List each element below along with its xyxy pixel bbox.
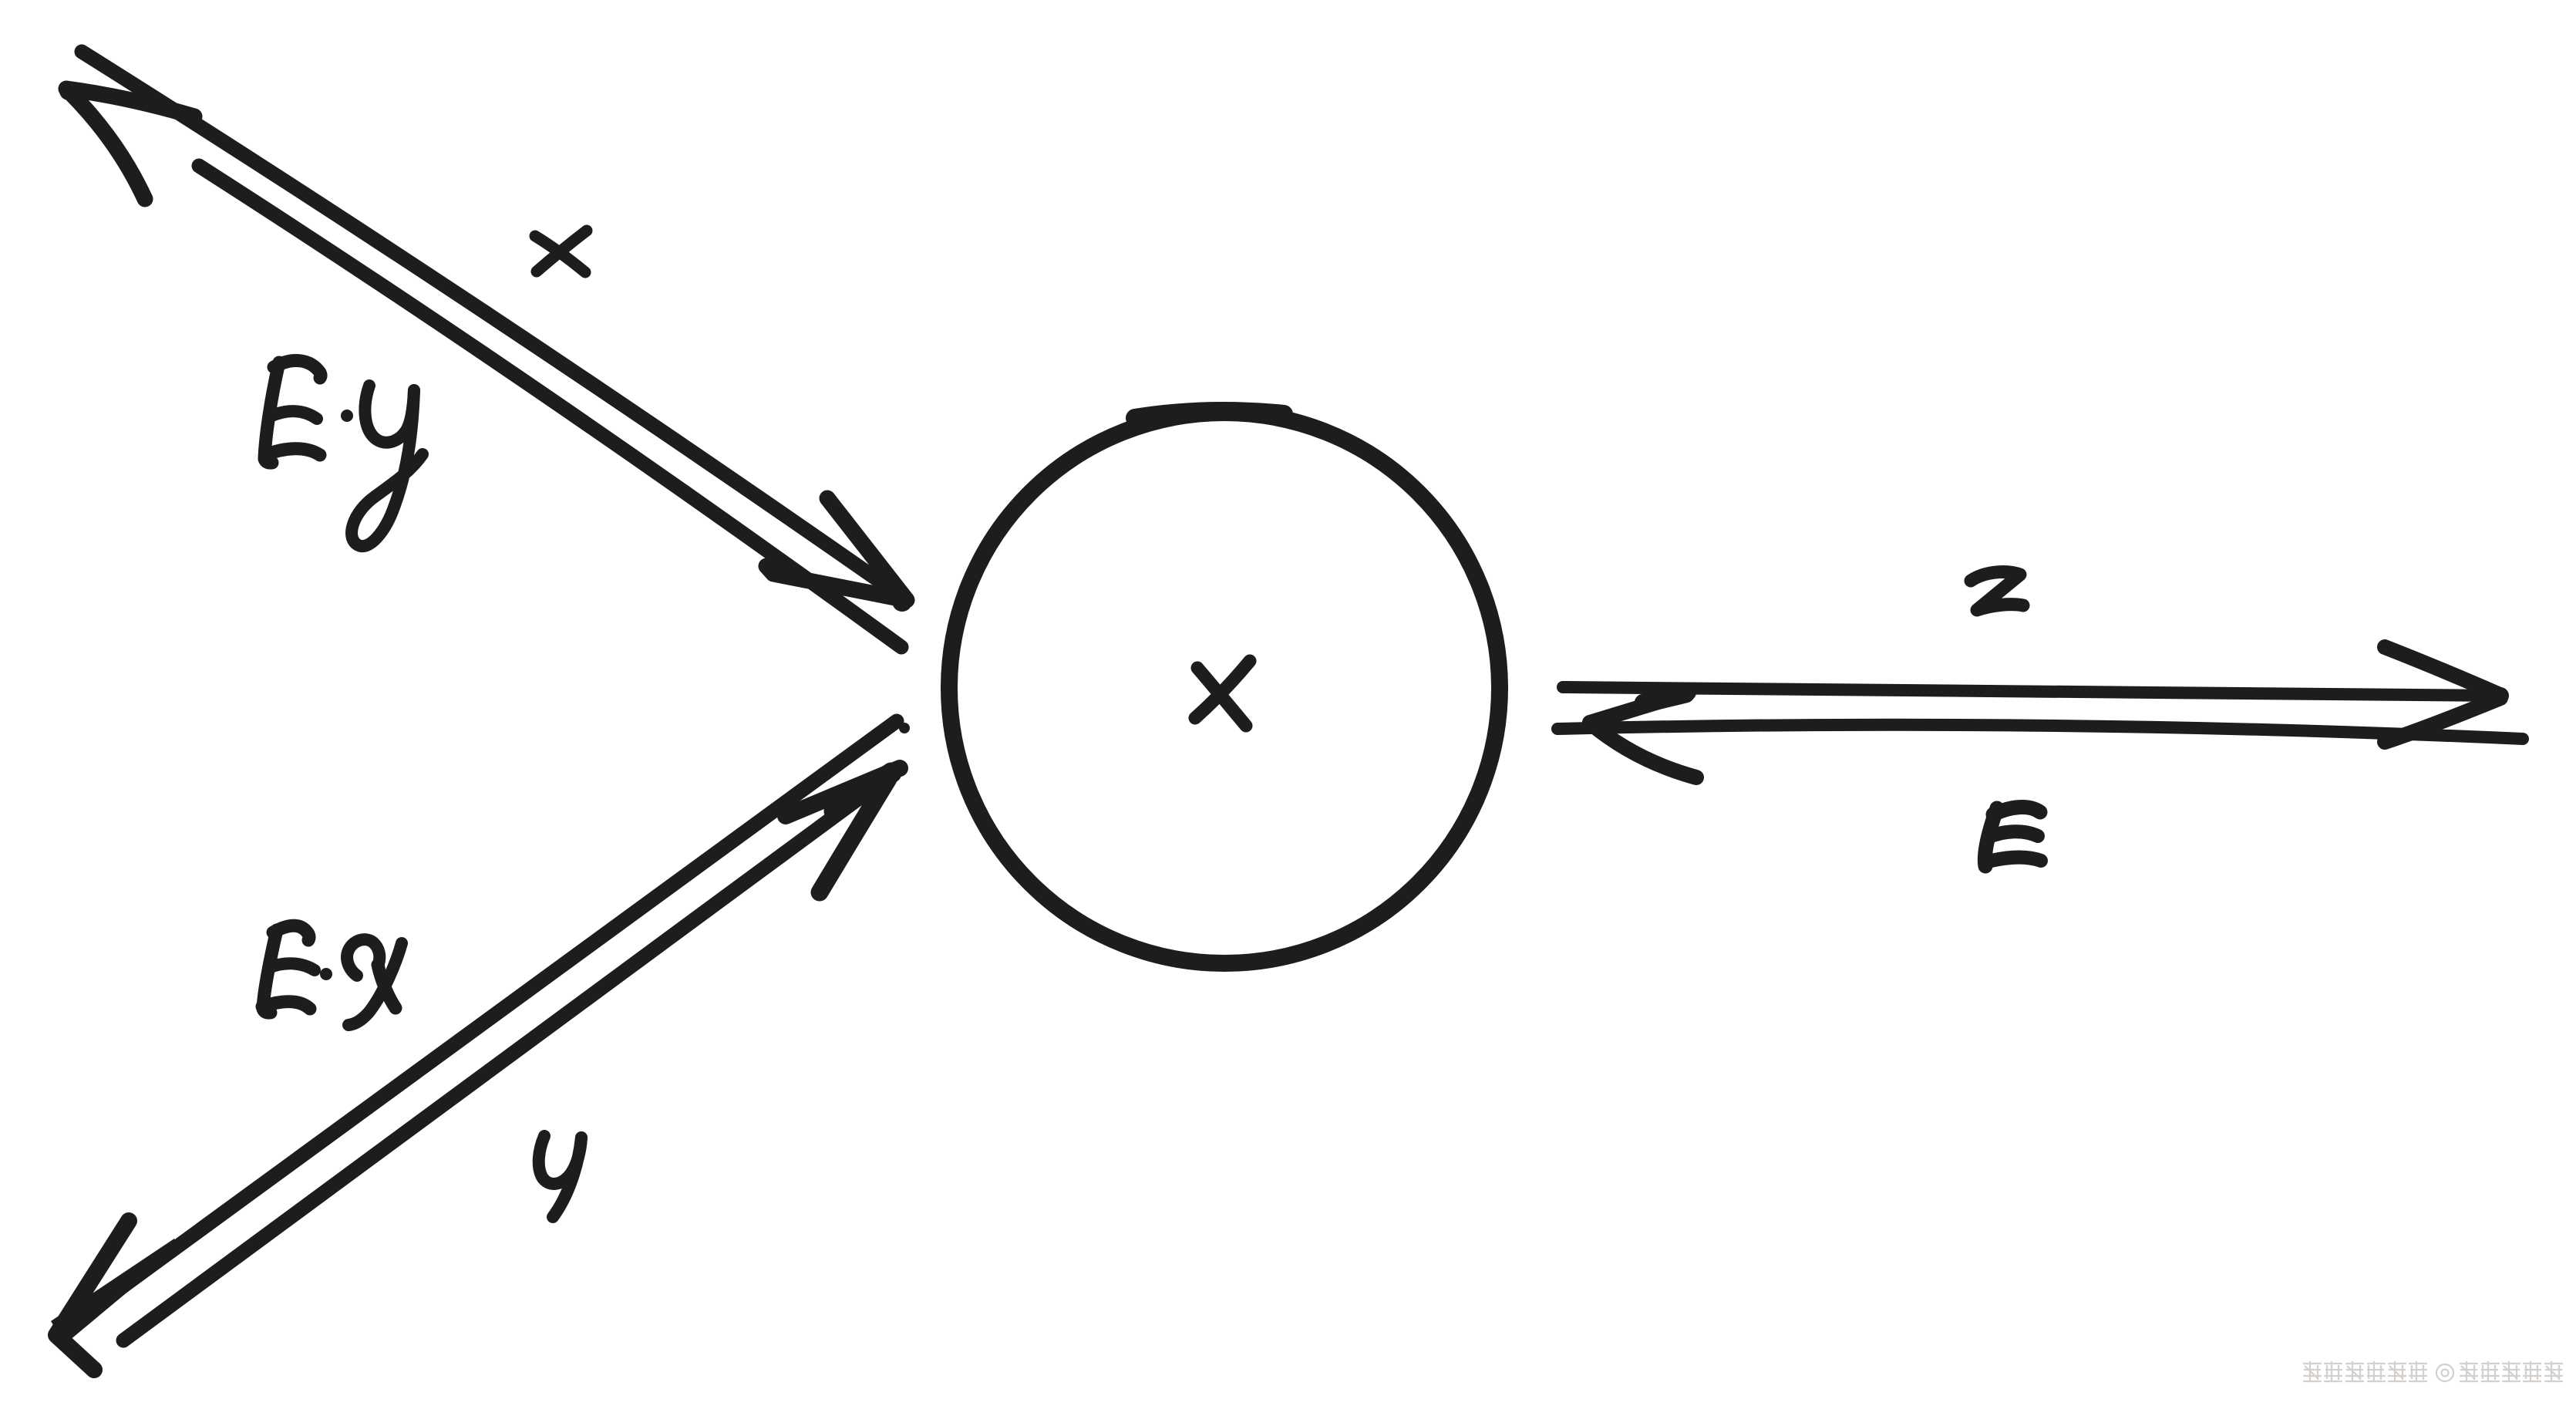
label x (upper arrow) [535, 231, 587, 272]
label z [1971, 572, 2023, 610]
label E (right arrow) [1985, 808, 1997, 866]
node X circle top overlap stroke [1135, 411, 1284, 418]
wire x lower shaft (arrow away from circle) [199, 166, 901, 647]
arrowhead at far upper-left end [66, 89, 194, 199]
arrowhead into circle (lower-left arrow) [786, 768, 900, 816]
arrowhead at right edge [2385, 647, 2498, 694]
node X center x mark [1195, 661, 1250, 726]
wire y lower shaft (arrow toward circle) [123, 768, 900, 1340]
label E·x [263, 930, 277, 1013]
wire z top line (arrow to right edge) [1563, 687, 2498, 696]
wire z bottom line (arrow toward circle) [1557, 725, 2523, 739]
label E·y [264, 362, 279, 463]
node X circle [949, 413, 1500, 963]
arrowhead into circle (upper-left arrow) [766, 498, 907, 600]
watermark 掘金技术社区 @ 在路上的达 [2303, 1361, 2563, 1382]
arrowhead at far lower-left end [56, 1221, 129, 1370]
wire y upper shaft (arrow away from circle) [56, 721, 897, 1335]
label y (lower arrow) [539, 1136, 581, 1184]
wire x upper shaft (arrow toward circle) [82, 52, 907, 600]
arrowhead pointing at circle (left end of right arrow) [1590, 693, 1689, 723]
